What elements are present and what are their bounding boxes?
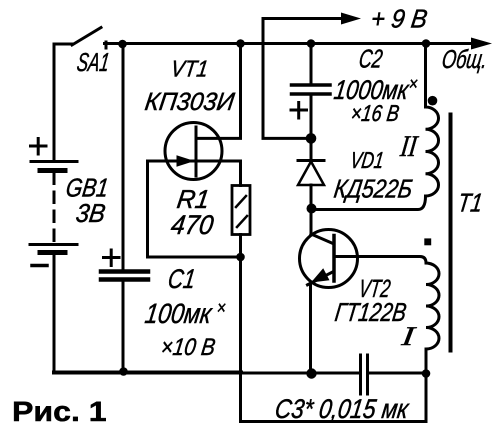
svg-text:КП303И: КП303И <box>143 88 236 116</box>
svg-text:Рис. 1: Рис. 1 <box>12 396 107 427</box>
svg-text:100мк: 100мк <box>143 298 215 329</box>
svg-text:C2: C2 <box>357 44 385 74</box>
svg-text:VT1: VT1 <box>169 56 210 82</box>
svg-text:VD1: VD1 <box>349 147 386 173</box>
svg-text:C1: C1 <box>166 264 197 294</box>
svg-text:×16 В: ×16 В <box>349 100 401 126</box>
svg-text:Общ.: Общ. <box>440 44 489 74</box>
svg-text:ГТ122В: ГТ122В <box>333 297 408 327</box>
svg-text:470: 470 <box>169 210 215 240</box>
svg-text:+ 9 В: + 9 В <box>369 4 429 34</box>
svg-text:×10 В: ×10 В <box>159 334 217 361</box>
svg-text:КД522Б: КД522Б <box>332 174 414 204</box>
svg-text:3В: 3В <box>74 198 107 228</box>
svg-text:SA1: SA1 <box>75 47 111 77</box>
svg-text:C3* 0,015 мк: C3* 0,015 мк <box>273 394 411 424</box>
svg-text:T1: T1 <box>456 188 484 218</box>
